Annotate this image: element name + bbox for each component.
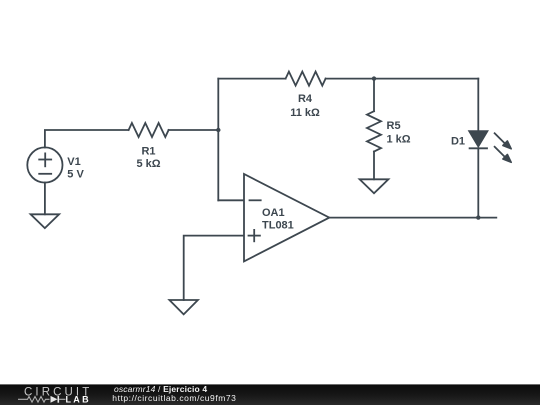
wire node B down to R5	[373, 79, 375, 112]
wire R1 to node A	[169, 129, 219, 131]
svg-text:1 kΩ: 1 kΩ	[387, 134, 411, 146]
wire node B to right corner	[374, 78, 478, 80]
wire R4 to node B	[326, 78, 374, 80]
wire op-amp output	[329, 217, 496, 219]
junction node B (R4 / R5)	[372, 76, 376, 80]
svg-text:5 kΩ: 5 kΩ	[136, 158, 160, 170]
D1 light arrow 2	[494, 146, 505, 157]
junction node C (output / D1)	[476, 215, 480, 219]
svg-text:R5: R5	[387, 120, 401, 132]
svg-text:R1: R1	[141, 145, 155, 157]
LED D1 body	[469, 131, 512, 163]
V1 minus sign	[39, 173, 51, 175]
svg-text:R4: R4	[298, 93, 313, 105]
logo wire to LAB	[59, 398, 65, 400]
wire op-amp noninverting input	[184, 236, 244, 300]
wire left vertical (node A column)	[217, 79, 219, 201]
wire right vertical to D1 anode	[477, 79, 479, 131]
ground (op-amp + input)	[169, 300, 198, 314]
wire top to R4	[218, 78, 285, 80]
logo diode	[51, 396, 60, 403]
wire V1 bottom to ground	[44, 183, 46, 215]
wire to op-amp inverting input	[218, 199, 244, 201]
D1 light arrow 1	[494, 133, 505, 144]
voltage source V1	[27, 147, 62, 182]
op-amp minus input symbol	[250, 199, 261, 201]
svg-text:OA1: OA1	[262, 207, 285, 219]
logo resistor squiggle	[18, 397, 50, 403]
junction node A (R1 / op-amp branch)	[216, 128, 220, 132]
op-amp OA1 triangle	[244, 174, 329, 261]
svg-text:5 V: 5 V	[67, 168, 84, 180]
svg-text:11 kΩ: 11 kΩ	[290, 107, 320, 119]
resistor R1	[129, 123, 169, 137]
wire D1 cathode down to output net	[477, 148, 479, 217]
svg-text:V1: V1	[67, 156, 80, 168]
wire V1 top to R1	[45, 130, 129, 148]
op-amp plus input symbol	[249, 235, 260, 237]
V1 plus sign	[39, 159, 51, 161]
D1 cathode bar	[469, 147, 488, 149]
svg-text:LAB: LAB	[66, 394, 91, 404]
ground (R5)	[360, 179, 389, 193]
svg-text:http://circuitlab.com/cu9fm73: http://circuitlab.com/cu9fm73	[112, 393, 236, 403]
resistor R5	[367, 111, 381, 151]
svg-text:TL081: TL081	[262, 219, 294, 231]
wire R5 to ground	[373, 152, 375, 180]
resistor R4	[286, 72, 326, 86]
svg-text:D1: D1	[451, 136, 465, 148]
ground (V1)	[31, 214, 59, 228]
